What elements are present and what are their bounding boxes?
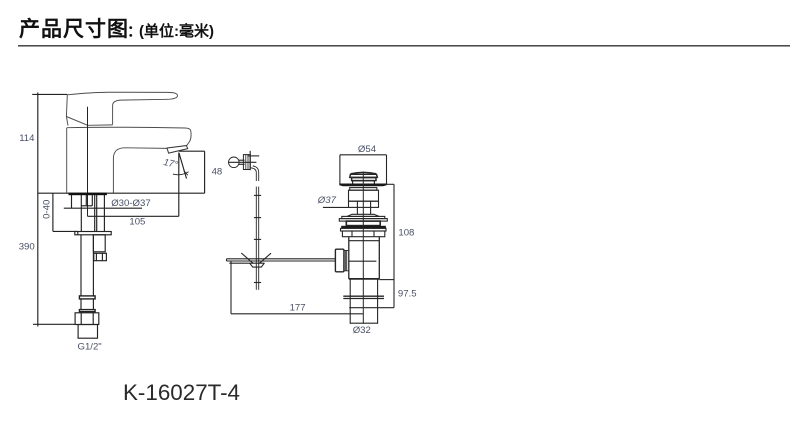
tailpipe (349, 279, 351, 324)
locknut (342, 231, 384, 237)
dim 177 (230, 261, 232, 314)
tick at body bottom (379, 279, 394, 281)
spout aerator (tilted) (167, 146, 188, 154)
svg-text:97.5: 97.5 (398, 289, 417, 300)
O54 dim box (340, 154, 387, 156)
G1/2 connector (78, 325, 97, 339)
deck line (38, 192, 205, 194)
tailpipe flange ring (343, 295, 384, 297)
valve body right (93, 235, 105, 252)
dimension line 114/390 left vertical (37, 93, 39, 327)
17 degree arc end tick (184, 171, 188, 176)
svg-text:108: 108 (398, 227, 414, 238)
threaded section (349, 201, 379, 207)
svg-text:G1/2": G1/2" (78, 341, 102, 352)
clip diagonal left (241, 253, 253, 263)
clip retainer line (229, 262, 264, 264)
svg-text:Ø37: Ø37 (317, 195, 337, 206)
svg-text:177: 177 (290, 302, 306, 313)
product code K-16027T-4 (123, 380, 240, 406)
tailpipe bottom (350, 322, 377, 324)
svg-text:17°: 17° (162, 157, 179, 171)
knob top tick (247, 155, 259, 157)
drain centerline (362, 172, 364, 324)
knob vertical centerline (249, 151, 251, 170)
dim tick top (handle top) (32, 93, 67, 95)
deck gasket (black bar) (69, 193, 107, 196)
bevel washer (347, 214, 379, 216)
tick at tail joint (349, 307, 394, 309)
rubber gasket black band (341, 226, 386, 228)
faucet centerline (87, 107, 89, 217)
pivot rod double line (227, 258, 336, 260)
wide washer (339, 219, 387, 222)
rod tick marks (254, 194, 261, 196)
svg-text:390: 390 (19, 242, 35, 253)
tube fitting band 2 (79, 310, 95, 312)
supply tube (80, 235, 82, 296)
tube continues (80, 299, 82, 310)
pivot rod inside drain body (349, 260, 377, 262)
svg-text:105: 105 (129, 216, 145, 227)
neck (356, 207, 358, 214)
dim 0-40 vertical (52, 193, 54, 231)
dim 48 rectangle (179, 150, 205, 152)
17 degree arc (173, 172, 189, 175)
svg-text:48: 48 (212, 166, 223, 177)
knob bracket (243, 155, 250, 170)
clip cup (250, 263, 265, 267)
valve nut (94, 253, 107, 260)
faucet handle outline (66, 92, 177, 125)
svg-text:0-40: 0-40 (42, 200, 53, 219)
leader line for O30-O37 (64, 207, 142, 209)
title 产品尺寸图 (单位:毫米) (19, 13, 214, 43)
dim tick bottom 390 (33, 323, 75, 325)
cap tier 3 (353, 181, 375, 184)
title underline (18, 45, 790, 47)
tick at flange (387, 183, 395, 185)
dim line 105 (88, 215, 179, 217)
faucet body and spout outline (67, 127, 191, 193)
svg-text:Ø30-Ø37: Ø30-Ø37 (111, 198, 150, 209)
clip diagonal right (259, 253, 271, 263)
body section with thick walls (346, 221, 380, 226)
hex nut (75, 313, 99, 325)
knob stem lines (238, 159, 244, 161)
pivot rod nut on body (335, 249, 344, 272)
mounting shank lines below deck (71, 195, 73, 208)
lift rod lower segment (255, 187, 257, 290)
plate washer (341, 228, 387, 231)
svg-text:Ø54: Ø54 (358, 144, 377, 155)
dim 108 / 97.5 vertical (393, 184, 395, 307)
cap tier 1 (350, 174, 378, 177)
tube fitting band 1 (79, 296, 95, 299)
ring under flange (350, 188, 377, 191)
lift rod knob circle (229, 157, 240, 168)
lift rod upper segment (255, 173, 257, 182)
knob horizontal centerline (228, 161, 256, 163)
17 degree indicator arrow (179, 153, 187, 179)
faucet mounting flange (75, 232, 111, 235)
cap tier 2 (352, 178, 376, 181)
drain main body (348, 237, 350, 279)
upper body O37 (349, 190, 379, 201)
lift rod curve from bracket (250, 168, 256, 173)
drain plug cap top ellipse (351, 172, 376, 173)
svg-text:Ø32: Ø32 (353, 325, 371, 336)
drain top flange (339, 184, 386, 187)
svg-text:114: 114 (19, 133, 35, 144)
washer 2 (342, 216, 385, 218)
